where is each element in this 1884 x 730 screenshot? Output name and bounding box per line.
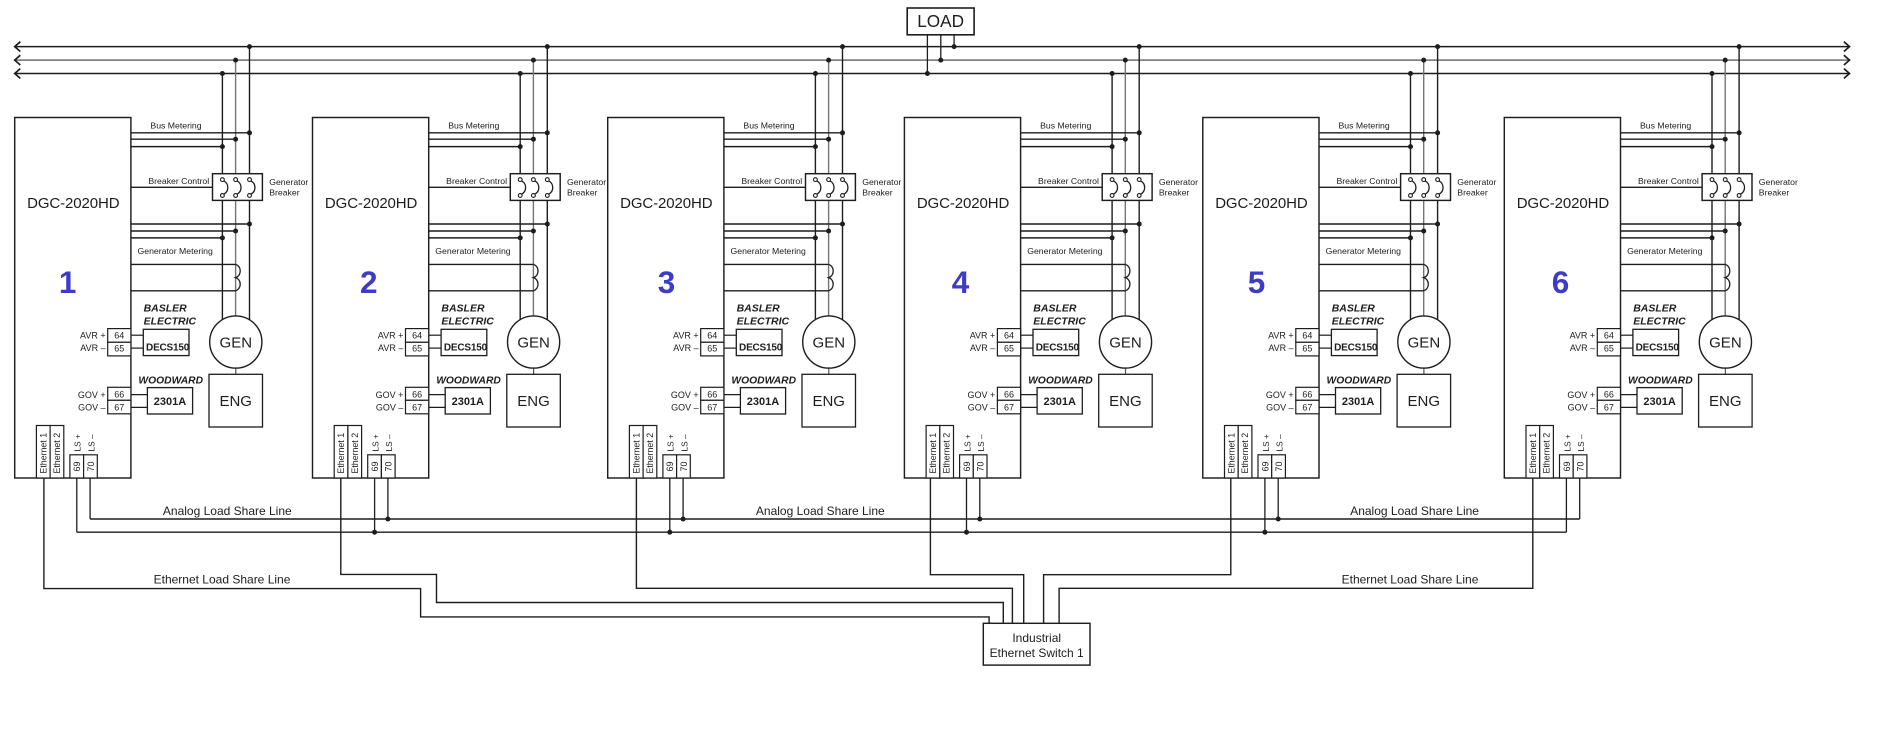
svg-text:2301A: 2301A xyxy=(1043,396,1075,408)
svg-text:LS +: LS + xyxy=(962,434,972,451)
svg-text:Breaker: Breaker xyxy=(567,187,598,197)
svg-text:GOV +: GOV + xyxy=(671,390,699,400)
svg-text:Bus Metering: Bus Metering xyxy=(743,120,794,130)
svg-text:67: 67 xyxy=(707,403,717,413)
svg-text:AVR –: AVR – xyxy=(1268,343,1293,353)
svg-text:GEN: GEN xyxy=(220,334,253,351)
svg-text:5: 5 xyxy=(1248,264,1266,300)
svg-text:Analog Load Share Line: Analog Load Share Line xyxy=(1350,504,1479,518)
svg-text:69: 69 xyxy=(72,461,82,471)
svg-text:LS –: LS – xyxy=(976,434,986,451)
svg-text:GOV +: GOV + xyxy=(376,390,404,400)
svg-text:Bus Metering: Bus Metering xyxy=(1339,120,1390,130)
svg-text:Bus Metering: Bus Metering xyxy=(150,120,201,130)
svg-text:DGC-2020HD: DGC-2020HD xyxy=(1215,195,1308,212)
svg-text:AVR +: AVR + xyxy=(970,330,996,340)
svg-text:WOODWARD: WOODWARD xyxy=(1028,376,1093,387)
svg-text:Generator: Generator xyxy=(1759,177,1798,187)
svg-text:LS +: LS + xyxy=(1562,434,1572,451)
svg-text:Generator Metering: Generator Metering xyxy=(1326,246,1401,256)
svg-text:GEN: GEN xyxy=(1109,334,1142,351)
svg-text:67: 67 xyxy=(1004,403,1014,413)
svg-text:66: 66 xyxy=(412,390,422,400)
svg-text:ENG: ENG xyxy=(1408,393,1441,410)
svg-text:2: 2 xyxy=(360,264,378,300)
svg-text:66: 66 xyxy=(1004,390,1014,400)
svg-text:2301A: 2301A xyxy=(154,396,186,408)
svg-text:LS –: LS – xyxy=(1576,434,1586,451)
svg-text:DECS150: DECS150 xyxy=(146,342,190,353)
svg-text:Generator: Generator xyxy=(567,177,606,187)
svg-text:GOV –: GOV – xyxy=(1266,403,1294,413)
svg-text:BASLER: BASLER xyxy=(1633,302,1677,314)
svg-text:ENG: ENG xyxy=(812,393,845,410)
svg-text:LS –: LS – xyxy=(384,434,394,451)
svg-text:2301A: 2301A xyxy=(1643,396,1675,408)
svg-text:64: 64 xyxy=(1004,330,1014,340)
svg-text:Generator: Generator xyxy=(1457,177,1496,187)
svg-text:Bus Metering: Bus Metering xyxy=(1040,120,1091,130)
svg-text:LS +: LS + xyxy=(666,434,676,451)
svg-text:BASLER: BASLER xyxy=(737,302,781,314)
svg-text:64: 64 xyxy=(1302,330,1312,340)
svg-text:AVR –: AVR – xyxy=(673,343,698,353)
svg-text:67: 67 xyxy=(1302,403,1312,413)
svg-text:AVR –: AVR – xyxy=(1570,343,1595,353)
svg-text:66: 66 xyxy=(114,390,124,400)
svg-text:Breaker Control: Breaker Control xyxy=(446,176,507,186)
svg-text:GEN: GEN xyxy=(1408,334,1441,351)
svg-text:64: 64 xyxy=(114,330,124,340)
svg-text:DGC-2020HD: DGC-2020HD xyxy=(27,195,120,212)
svg-text:Ethernet 1: Ethernet 1 xyxy=(336,433,346,474)
svg-text:Ethernet 2: Ethernet 2 xyxy=(52,433,62,474)
svg-text:ENG: ENG xyxy=(1709,393,1742,410)
svg-text:65: 65 xyxy=(114,343,124,353)
svg-text:GOV +: GOV + xyxy=(968,390,996,400)
svg-text:DECS150: DECS150 xyxy=(739,342,783,353)
svg-text:Ethernet 2: Ethernet 2 xyxy=(1240,433,1250,474)
svg-text:64: 64 xyxy=(707,330,717,340)
svg-text:65: 65 xyxy=(1604,343,1614,353)
svg-text:BASLER: BASLER xyxy=(1332,302,1376,314)
svg-text:ELECTRIC: ELECTRIC xyxy=(144,315,197,327)
svg-text:BASLER: BASLER xyxy=(441,302,485,314)
svg-text:GOV –: GOV – xyxy=(1568,403,1596,413)
svg-text:70: 70 xyxy=(1274,461,1284,471)
svg-text:ELECTRIC: ELECTRIC xyxy=(1332,315,1385,327)
svg-text:GOV +: GOV + xyxy=(1567,390,1595,400)
svg-text:Breaker: Breaker xyxy=(1159,187,1190,197)
svg-text:Ethernet Switch 1: Ethernet Switch 1 xyxy=(990,646,1084,660)
svg-text:65: 65 xyxy=(707,343,717,353)
svg-text:64: 64 xyxy=(1604,330,1614,340)
svg-text:66: 66 xyxy=(707,390,717,400)
svg-text:Generator Metering: Generator Metering xyxy=(1027,246,1102,256)
svg-text:Bus Metering: Bus Metering xyxy=(1640,120,1691,130)
svg-text:Breaker: Breaker xyxy=(269,187,300,197)
svg-text:GOV +: GOV + xyxy=(1266,390,1294,400)
svg-text:GEN: GEN xyxy=(517,334,550,351)
svg-text:Ethernet 1: Ethernet 1 xyxy=(38,433,48,474)
svg-text:GOV –: GOV – xyxy=(671,403,699,413)
svg-text:DGC-2020HD: DGC-2020HD xyxy=(1517,195,1610,212)
svg-text:Generator Metering: Generator Metering xyxy=(1627,246,1702,256)
svg-text:GOV –: GOV – xyxy=(78,403,106,413)
svg-text:69: 69 xyxy=(1562,461,1572,471)
svg-text:69: 69 xyxy=(962,461,972,471)
svg-text:DGC-2020HD: DGC-2020HD xyxy=(620,195,713,212)
svg-text:1: 1 xyxy=(59,264,77,300)
svg-text:GEN: GEN xyxy=(813,334,846,351)
svg-text:BASLER: BASLER xyxy=(1033,302,1077,314)
svg-text:LS –: LS – xyxy=(86,434,96,451)
svg-text:DECS150: DECS150 xyxy=(444,342,488,353)
svg-text:GOV +: GOV + xyxy=(78,390,106,400)
svg-text:66: 66 xyxy=(1604,390,1614,400)
svg-text:Breaker Control: Breaker Control xyxy=(1638,176,1699,186)
svg-text:Breaker: Breaker xyxy=(1457,187,1488,197)
svg-text:2301A: 2301A xyxy=(747,396,779,408)
svg-text:Ethernet Load Share Line: Ethernet Load Share Line xyxy=(1342,573,1479,587)
svg-text:LS +: LS + xyxy=(371,434,381,451)
svg-text:Ethernet 1: Ethernet 1 xyxy=(631,433,641,474)
svg-text:2301A: 2301A xyxy=(452,396,484,408)
svg-text:AVR –: AVR – xyxy=(80,343,105,353)
svg-text:Ethernet Load Share Line: Ethernet Load Share Line xyxy=(154,573,291,587)
svg-text:Ethernet 2: Ethernet 2 xyxy=(350,433,360,474)
svg-text:WOODWARD: WOODWARD xyxy=(1628,376,1693,387)
svg-text:Analog Load Share Line: Analog Load Share Line xyxy=(756,504,885,518)
svg-text:70: 70 xyxy=(679,461,689,471)
svg-text:70: 70 xyxy=(86,461,96,471)
svg-text:67: 67 xyxy=(114,403,124,413)
svg-text:WOODWARD: WOODWARD xyxy=(1327,376,1392,387)
svg-text:4: 4 xyxy=(952,264,970,300)
svg-text:ELECTRIC: ELECTRIC xyxy=(441,315,494,327)
svg-text:70: 70 xyxy=(976,461,986,471)
svg-text:WOODWARD: WOODWARD xyxy=(731,376,796,387)
svg-text:Breaker Control: Breaker Control xyxy=(1038,176,1099,186)
svg-text:Generator: Generator xyxy=(862,177,901,187)
svg-text:AVR +: AVR + xyxy=(1570,330,1596,340)
svg-text:Ethernet 1: Ethernet 1 xyxy=(1226,433,1236,474)
svg-text:LS –: LS – xyxy=(679,434,689,451)
svg-text:LOAD: LOAD xyxy=(917,11,964,31)
svg-text:GEN: GEN xyxy=(1709,334,1742,351)
svg-text:67: 67 xyxy=(412,403,422,413)
svg-text:64: 64 xyxy=(412,330,422,340)
svg-text:LS +: LS + xyxy=(73,434,83,451)
svg-text:2301A: 2301A xyxy=(1342,396,1374,408)
svg-text:69: 69 xyxy=(665,461,675,471)
svg-text:65: 65 xyxy=(1004,343,1014,353)
svg-text:Breaker: Breaker xyxy=(1759,187,1790,197)
svg-text:70: 70 xyxy=(384,461,394,471)
svg-text:Breaker: Breaker xyxy=(862,187,893,197)
svg-text:Bus Metering: Bus Metering xyxy=(448,120,499,130)
svg-text:Ethernet 1: Ethernet 1 xyxy=(928,433,938,474)
svg-text:Industrial: Industrial xyxy=(1012,631,1061,645)
svg-text:Breaker Control: Breaker Control xyxy=(148,176,209,186)
svg-text:GOV –: GOV – xyxy=(968,403,996,413)
svg-text:DECS150: DECS150 xyxy=(1636,342,1680,353)
svg-text:WOODWARD: WOODWARD xyxy=(138,376,203,387)
svg-text:Generator Metering: Generator Metering xyxy=(138,246,213,256)
svg-text:GOV –: GOV – xyxy=(376,403,404,413)
svg-text:Analog Load Share Line: Analog Load Share Line xyxy=(163,504,292,518)
svg-text:ENG: ENG xyxy=(1109,393,1142,410)
svg-text:69: 69 xyxy=(370,461,380,471)
svg-text:Generator: Generator xyxy=(1159,177,1198,187)
svg-text:DECS150: DECS150 xyxy=(1334,342,1378,353)
svg-text:67: 67 xyxy=(1604,403,1614,413)
svg-text:66: 66 xyxy=(1302,390,1312,400)
svg-text:65: 65 xyxy=(412,343,422,353)
svg-text:Generator Metering: Generator Metering xyxy=(731,246,806,256)
svg-text:ENG: ENG xyxy=(219,393,252,410)
svg-text:LS –: LS – xyxy=(1275,434,1285,451)
svg-text:Generator Metering: Generator Metering xyxy=(435,246,510,256)
svg-text:Ethernet 1: Ethernet 1 xyxy=(1528,433,1538,474)
svg-text:3: 3 xyxy=(658,264,676,300)
svg-text:DGC-2020HD: DGC-2020HD xyxy=(325,195,418,212)
svg-text:ENG: ENG xyxy=(517,393,550,410)
svg-text:BASLER: BASLER xyxy=(144,302,188,314)
svg-text:Generator: Generator xyxy=(269,177,308,187)
svg-text:65: 65 xyxy=(1302,343,1312,353)
svg-text:AVR +: AVR + xyxy=(378,330,404,340)
svg-text:LS +: LS + xyxy=(1261,434,1271,451)
svg-text:ELECTRIC: ELECTRIC xyxy=(1033,315,1086,327)
svg-text:ELECTRIC: ELECTRIC xyxy=(1633,315,1686,327)
svg-text:Breaker Control: Breaker Control xyxy=(741,176,802,186)
svg-text:Breaker Control: Breaker Control xyxy=(1336,176,1397,186)
svg-text:WOODWARD: WOODWARD xyxy=(436,376,501,387)
svg-text:AVR –: AVR – xyxy=(970,343,995,353)
svg-text:AVR +: AVR + xyxy=(80,330,106,340)
svg-text:Ethernet 2: Ethernet 2 xyxy=(942,433,952,474)
svg-text:Ethernet 2: Ethernet 2 xyxy=(1542,433,1552,474)
svg-text:DECS150: DECS150 xyxy=(1036,342,1080,353)
svg-text:DGC-2020HD: DGC-2020HD xyxy=(917,195,1010,212)
svg-text:6: 6 xyxy=(1552,264,1570,300)
svg-text:70: 70 xyxy=(1576,461,1586,471)
svg-text:AVR +: AVR + xyxy=(673,330,699,340)
svg-text:AVR –: AVR – xyxy=(378,343,403,353)
svg-text:ELECTRIC: ELECTRIC xyxy=(737,315,790,327)
svg-text:Ethernet 2: Ethernet 2 xyxy=(645,433,655,474)
svg-text:AVR +: AVR + xyxy=(1268,330,1294,340)
svg-text:69: 69 xyxy=(1260,461,1270,471)
